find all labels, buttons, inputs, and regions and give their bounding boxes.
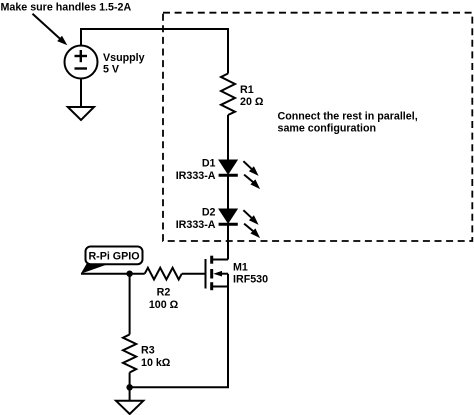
resistor R1 [221, 74, 235, 116]
svg-text:D2: D2 [202, 207, 216, 219]
LED D1 [219, 160, 238, 175]
resistor R3 [123, 335, 136, 373]
annotation arrow [33, 14, 68, 45]
svg-text:100 Ω: 100 Ω [149, 299, 179, 311]
svg-text:10 kΩ: 10 kΩ [141, 357, 171, 369]
label D2 IR333-A [176, 207, 216, 232]
LED D2 [219, 209, 238, 224]
R-Pi GPIO bubble [81, 247, 143, 274]
wire: D2 to M1 drain [227, 224, 229, 259]
label R2 100 Ohm [149, 287, 179, 312]
label R3 10 kOhm [141, 345, 171, 370]
svg-text:Connect the rest in parallel,: Connect the rest in parallel, [278, 111, 418, 123]
svg-text:R3: R3 [141, 345, 155, 357]
svg-text:5 V: 5 V [103, 64, 120, 76]
voltage source Vsupply [65, 46, 98, 79]
svg-text:IR333-A: IR333-A [176, 219, 216, 231]
wire: supply top to R1 top [81, 29, 228, 74]
transistor M1 (N-MOSFET) [206, 256, 229, 291]
wire: node to ground [129, 387, 131, 401]
resistor R2 [145, 268, 182, 280]
svg-text:Vsupply: Vsupply [103, 52, 145, 64]
svg-text:D1: D1 [202, 158, 216, 170]
label D1 IR333-A [176, 158, 216, 183]
svg-text:IRF530: IRF530 [233, 274, 268, 286]
wire: R2 to gate [182, 273, 205, 275]
svg-text:Make sure handles 1.5-2A: Make sure handles 1.5-2A [1, 2, 132, 14]
D2 emission arrows [243, 210, 260, 238]
wire: R3 bottom to node [129, 373, 131, 388]
svg-text:R1: R1 [240, 84, 254, 96]
svg-text:20 Ω: 20 Ω [240, 96, 264, 108]
label M1 IRF530 [233, 262, 268, 286]
wire: bottom (node to M1 source) [130, 274, 228, 388]
junction dot (ground node) [126, 384, 132, 390]
wire: D1 to D2 [227, 175, 229, 209]
ground (supply) [68, 107, 94, 120]
wire: R3 top [129, 274, 131, 335]
dashed region box [163, 13, 472, 241]
label Vsupply 5 V [103, 52, 145, 76]
ground (bottom) [116, 401, 143, 414]
svg-text:R2: R2 [157, 287, 171, 299]
label R1 20 Ohm [240, 84, 264, 108]
svg-text:R-Pi GPIO: R-Pi GPIO [88, 251, 139, 263]
junction dot (gate node / R3 top) [126, 271, 132, 277]
svg-text:IR333-A: IR333-A [176, 170, 216, 182]
D1 emission arrows [243, 161, 260, 189]
note: connect the rest in parallel [278, 111, 418, 135]
wire: R1 to D1 [227, 115, 229, 160]
wire: supply bottom to ground [80, 79, 82, 108]
svg-text:M1: M1 [233, 262, 248, 274]
svg-text:same configuration: same configuration [278, 123, 377, 135]
wire: GPIO to R2 [81, 273, 145, 275]
